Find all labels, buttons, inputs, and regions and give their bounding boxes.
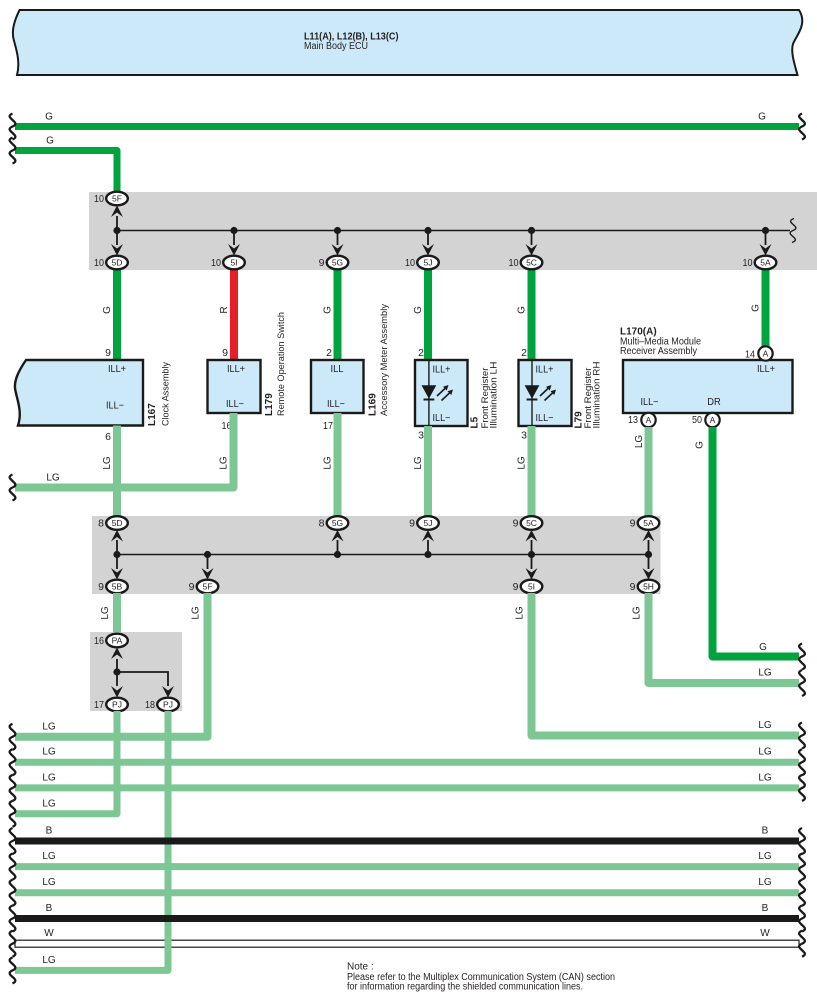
clock assembly L167 box	[15, 347, 143, 443]
break symbol LG left y813	[10, 801, 16, 827]
svg-text:5F: 5F	[112, 194, 122, 204]
multi-media module receiver assembly L170(A) box	[623, 360, 793, 413]
svg-text:LG: LG	[413, 456, 424, 470]
svg-text:9: 9	[222, 347, 228, 359]
svg-text:LG: LG	[42, 747, 56, 758]
front register illumination LH L5 box	[415, 347, 468, 442]
connector PJ 17	[94, 698, 128, 712]
connector 5I arrow	[228, 233, 240, 256]
svg-text:10: 10	[509, 257, 519, 269]
svg-text:Illumination RH: Illumination RH	[592, 362, 602, 429]
wire LG horizontal y788	[15, 772, 799, 788]
svg-text:L5: L5	[470, 416, 481, 428]
LED symbol L79	[525, 385, 556, 401]
junction block PA PJ box	[90, 632, 182, 711]
connector 5D band2	[98, 516, 128, 530]
svg-text:5J: 5J	[424, 258, 433, 268]
svg-text:G: G	[413, 306, 424, 314]
connector PA arrow	[111, 648, 123, 671]
svg-text:5D: 5D	[112, 258, 123, 268]
svg-text:16: 16	[94, 635, 104, 647]
svg-text:LG: LG	[515, 606, 526, 620]
connector 5J	[405, 256, 439, 270]
svg-text:G: G	[323, 306, 334, 314]
svg-text:LG: LG	[632, 606, 643, 620]
svg-text:G: G	[45, 112, 53, 123]
svg-text:G: G	[758, 112, 766, 123]
svg-text:5A: 5A	[643, 518, 654, 528]
svg-text:5G: 5G	[332, 258, 343, 268]
connector 5A band2	[630, 516, 660, 530]
svg-text:17: 17	[94, 699, 104, 711]
svg-text:LG: LG	[758, 877, 772, 888]
svg-text:R: R	[219, 306, 230, 313]
wire LG horizontal y866	[15, 851, 799, 867]
svg-text:A: A	[710, 415, 716, 425]
svg-text:G: G	[751, 304, 762, 312]
break symbol right wire G	[799, 114, 805, 140]
svg-text:Illumination LH: Illumination LH	[489, 362, 499, 429]
connector 5F band2 arrow	[202, 557, 214, 580]
svg-text:DR: DR	[707, 397, 721, 408]
wire G 5C to L79	[517, 262, 532, 361]
break symbol	[799, 775, 805, 801]
svg-text:G: G	[46, 136, 54, 147]
label L5 Front Register Illumination LH	[470, 362, 499, 429]
svg-text:13: 13	[628, 414, 638, 426]
connector 5A arrow	[760, 233, 772, 256]
svg-text:ILL+: ILL+	[108, 364, 126, 375]
svg-text:5J: 5J	[424, 518, 433, 528]
svg-text:5I: 5I	[528, 582, 535, 592]
remote operation switch L179 box	[208, 347, 261, 432]
svg-text:ILL−: ILL−	[327, 399, 345, 410]
connector 5D arrow	[111, 233, 123, 256]
svg-text:L179: L179	[264, 393, 275, 416]
svg-text:PJ: PJ	[163, 700, 173, 710]
wire LG 5F to left edge	[15, 593, 208, 737]
svg-text:Receiver Assembly: Receiver Assembly	[620, 346, 697, 357]
svg-text:ILL+: ILL+	[757, 364, 775, 375]
break symbol	[10, 906, 16, 932]
svg-text:PJ: PJ	[112, 700, 122, 710]
svg-text:9: 9	[189, 581, 195, 593]
shield band 2	[92, 516, 661, 594]
svg-text:for information regarding the: for information regarding the shielded c…	[347, 982, 583, 993]
connector 5J band2 arrow	[422, 530, 434, 552]
svg-text:LG: LG	[42, 772, 56, 783]
wire G to junction 5F	[15, 136, 117, 197]
svg-text:L167: L167	[147, 403, 158, 426]
wire B horizontal y841	[15, 826, 799, 842]
svg-text:LG: LG	[517, 456, 528, 470]
svg-text:3: 3	[418, 430, 424, 442]
break symbol band 1 line	[790, 219, 796, 243]
svg-text:LG: LG	[191, 606, 202, 620]
svg-text:A: A	[763, 349, 769, 359]
connector 5G band2 arrow	[332, 530, 344, 552]
wire LG 5H to right edge	[632, 593, 800, 683]
wire LG PJ17 to left edge	[15, 711, 117, 814]
svg-text:ILL−: ILL−	[106, 401, 124, 412]
wire LG horizontal y892	[15, 877, 799, 893]
break symbol left wire G	[10, 114, 16, 140]
svg-text:G: G	[759, 642, 767, 653]
svg-text:LG: LG	[42, 721, 56, 732]
wire LG accessory meter pin 17 to band2 5G	[323, 413, 338, 517]
pin 14 connector A	[745, 346, 773, 360]
front register illumination RH L79 box	[519, 347, 572, 442]
svg-text:LG: LG	[42, 955, 56, 966]
wire G L170 pin 50 DR to right edge	[695, 427, 800, 657]
svg-text:Clock Assembly: Clock Assembly	[161, 362, 171, 426]
svg-text:5A: 5A	[760, 258, 771, 268]
break symbol LG left	[10, 475, 16, 501]
svg-text:LG: LG	[758, 668, 772, 679]
wire B horizontal y918	[15, 903, 799, 919]
connector 5H arrow	[643, 557, 655, 580]
break symbol	[799, 854, 805, 880]
svg-text:A: A	[646, 415, 652, 425]
svg-text:ILL−: ILL−	[433, 413, 451, 424]
svg-text:LG: LG	[42, 877, 56, 888]
svg-text:Accessory Meter Assembly: Accessory Meter Assembly	[379, 304, 389, 416]
svg-text:LG: LG	[100, 606, 111, 620]
wire LG remote switch pin 16 to left edge	[15, 413, 234, 488]
label L179 Remote Operation Switch	[264, 312, 286, 416]
svg-text:LG: LG	[758, 747, 772, 758]
svg-text:L169: L169	[368, 393, 379, 416]
svg-text:B: B	[762, 826, 769, 837]
svg-text:LG: LG	[219, 456, 230, 470]
break symbol	[10, 931, 16, 957]
svg-text:5G: 5G	[332, 518, 343, 528]
wire LG L170 pin 13 to band2 5A	[634, 427, 649, 517]
svg-text:10: 10	[743, 257, 753, 269]
shield band 1	[89, 192, 817, 270]
wire LG PJ18 to left edge	[15, 711, 168, 970]
connector 5A	[743, 256, 777, 270]
note text	[347, 962, 615, 993]
svg-text:5H: 5H	[643, 582, 654, 592]
wire G 5D to clock	[102, 262, 117, 361]
svg-text:LG: LG	[758, 720, 772, 731]
svg-text:ILL−: ILL−	[641, 397, 659, 408]
connector 5C band2	[513, 516, 543, 530]
junction dots band 2	[113, 551, 652, 558]
break symbol	[799, 749, 805, 775]
svg-text:G: G	[695, 441, 706, 449]
break symbol G right	[799, 644, 805, 670]
svg-text:LG: LG	[42, 851, 56, 862]
svg-text:LG: LG	[634, 435, 645, 449]
svg-text:G: G	[517, 306, 528, 314]
svg-text:9: 9	[409, 518, 415, 530]
Main Body ECU banner L11(A), L12(B), L13(C)	[13, 10, 802, 75]
break symbol	[10, 828, 16, 854]
wire G 5G to accessory meter	[323, 262, 338, 361]
svg-text:Remote Operation Switch: Remote Operation Switch	[276, 312, 286, 416]
break symbol	[799, 828, 805, 854]
connector 5F arrow	[111, 206, 123, 229]
connector 5J arrow	[422, 233, 434, 256]
break symbol LG left y736	[10, 724, 16, 750]
svg-text:ILL+: ILL+	[433, 365, 451, 376]
label L79 Front Register Illumination RH	[574, 362, 602, 429]
wire LG horizontal y762	[15, 747, 799, 763]
svg-text:LG: LG	[46, 473, 60, 484]
connector 5D	[94, 256, 128, 270]
svg-text:5C: 5C	[526, 258, 537, 268]
svg-text:LG: LG	[102, 456, 113, 470]
pin 13 connector A	[628, 413, 656, 427]
label L167 Clock Assembly	[147, 362, 171, 426]
connector 5H	[630, 580, 660, 594]
svg-text:10: 10	[405, 257, 415, 269]
svg-text:W: W	[760, 928, 770, 939]
junction link PA to PJ	[113, 668, 168, 686]
wire LG 5B to PA	[100, 593, 117, 634]
connector 5I band2	[513, 580, 543, 594]
break symbol	[10, 854, 16, 880]
connector 5J band2	[409, 516, 439, 530]
svg-text:LG: LG	[323, 456, 334, 470]
svg-text:5F: 5F	[203, 582, 213, 592]
svg-text:9: 9	[513, 518, 519, 530]
bus line band 2	[117, 554, 649, 556]
svg-text:9: 9	[630, 518, 636, 530]
break symbol wire G left	[10, 138, 16, 164]
svg-text:5D: 5D	[112, 518, 123, 528]
connector 5C arrow	[526, 233, 538, 256]
svg-text:LG: LG	[758, 851, 772, 862]
wire R 5I to remote switch	[219, 262, 234, 361]
svg-text:B: B	[762, 903, 769, 914]
svg-text:5I: 5I	[230, 258, 237, 268]
break symbol LG left y970	[10, 957, 16, 983]
svg-text:LG: LG	[758, 772, 772, 783]
svg-text:ILL−: ILL−	[226, 399, 244, 410]
break symbol	[10, 749, 16, 775]
svg-text:8: 8	[319, 518, 325, 530]
svg-text:LG: LG	[42, 798, 56, 809]
svg-text:ILL−: ILL−	[536, 413, 554, 424]
break symbol	[799, 906, 805, 932]
svg-text:ILL+: ILL+	[536, 365, 554, 376]
wire G 5J to L5	[413, 262, 428, 361]
svg-text:10: 10	[94, 193, 104, 205]
svg-text:ILL: ILL	[331, 364, 344, 375]
break symbol LG right y683	[799, 670, 805, 696]
connector 5I band2 arrow	[526, 557, 538, 580]
wire G horizontal top	[15, 112, 799, 127]
label L169 Accessory Meter Assembly	[368, 304, 390, 416]
svg-text:9: 9	[319, 257, 325, 269]
break symbol LG right y735	[799, 723, 805, 749]
connector PA	[94, 634, 128, 648]
break symbol	[799, 880, 805, 906]
svg-text:G: G	[102, 306, 113, 314]
connector 5B	[98, 580, 128, 594]
connector 5C band2 arrow	[526, 530, 538, 552]
LED symbol L5	[422, 385, 454, 401]
connector 5G	[319, 256, 349, 270]
connector PJ 18 arrow	[162, 686, 174, 698]
svg-text:W: W	[44, 928, 54, 939]
wire LG 5I to right edge	[515, 593, 800, 736]
svg-text:3: 3	[521, 430, 527, 442]
connector 5D band2 arrow	[111, 530, 123, 552]
svg-text:9: 9	[105, 347, 111, 359]
connector 5C	[509, 256, 543, 270]
svg-text:9: 9	[98, 581, 104, 593]
svg-text:18: 18	[145, 699, 155, 711]
svg-text:10: 10	[211, 257, 221, 269]
svg-text:9: 9	[630, 581, 636, 593]
connector PJ 17 arrow	[111, 686, 123, 698]
svg-text:14: 14	[745, 349, 755, 361]
connector 5A band2 arrow	[643, 530, 655, 552]
connector 5G band2	[319, 516, 349, 530]
connector 5F	[94, 192, 128, 206]
wire LG clock pin 6 to band2 5D	[102, 426, 117, 518]
svg-text:2: 2	[521, 347, 527, 359]
connector 5B arrow	[111, 557, 123, 580]
break symbol	[10, 880, 16, 906]
svg-text:5C: 5C	[526, 518, 537, 528]
svg-text:50: 50	[692, 414, 702, 426]
svg-text:17: 17	[323, 420, 333, 432]
wire W horizontal y943	[15, 928, 799, 947]
svg-text:Main Body ECU: Main Body ECU	[304, 41, 368, 52]
svg-text:6: 6	[105, 431, 111, 443]
bus line band 1	[117, 230, 790, 232]
connector 5I	[211, 256, 245, 270]
break symbol	[799, 931, 805, 957]
connector 5G arrow	[332, 233, 344, 256]
pin 50 connector A	[692, 413, 720, 427]
svg-text:9: 9	[513, 581, 519, 593]
connector PJ 18	[145, 698, 179, 712]
svg-text:B: B	[46, 826, 53, 837]
svg-text:2: 2	[326, 347, 332, 359]
wire LG L5 pin 3 to band2 5J	[413, 426, 428, 517]
junction dots band 1	[113, 227, 769, 234]
accessory meter assembly L169 box	[311, 347, 364, 432]
svg-text:8: 8	[98, 518, 104, 530]
svg-text:Note :: Note :	[347, 962, 374, 973]
svg-text:B: B	[46, 903, 53, 914]
wire LG L79 pin 3 to band2 5C	[517, 426, 532, 517]
connector 5F band2	[189, 580, 219, 594]
break symbol	[10, 775, 16, 801]
svg-text:PA: PA	[112, 636, 123, 646]
svg-text:2: 2	[418, 347, 424, 359]
svg-text:10: 10	[94, 257, 104, 269]
wire G 5A to L170 pin 14	[751, 262, 766, 347]
svg-text:5B: 5B	[112, 582, 123, 592]
label L170(A) Multi-Media Module Receiver Assembly	[620, 327, 701, 358]
svg-text:ILL+: ILL+	[227, 364, 245, 375]
